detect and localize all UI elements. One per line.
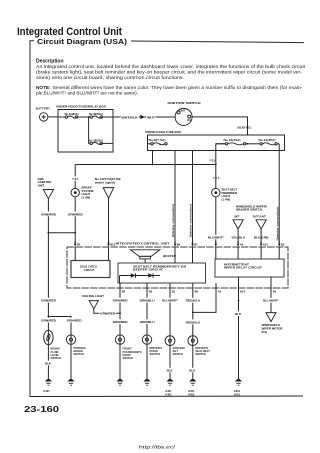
svg-text:No.8(7.5A): No.8(7.5A) bbox=[149, 138, 166, 142]
svg-text:G401: G401 bbox=[43, 389, 50, 393]
svg-text:SWITCH: SWITCH bbox=[123, 356, 134, 360]
driver door switch bbox=[142, 335, 162, 356]
wire column D front passenger door bbox=[119, 288, 121, 335]
bulb seat belt reminder light bbox=[212, 187, 238, 201]
bottom stub B2 bbox=[120, 283, 126, 294]
wire beeper stub bbox=[144, 259, 146, 263]
svg-text:(1.4W): (1.4W) bbox=[222, 198, 231, 202]
parking brake switch bbox=[66, 335, 85, 356]
wire BLK/YEL ignition to under-dash box bbox=[192, 117, 252, 135]
wire column J BLU/WHT1 bbox=[270, 288, 272, 313]
description heading bbox=[36, 59, 64, 65]
brake fluid level switch bbox=[44, 330, 61, 360]
connector windshield wiper motor bbox=[262, 313, 284, 334]
connector arrow on WHT wire bbox=[140, 114, 155, 120]
wire A4 stub bbox=[237, 247, 239, 259]
wire BLK seat belt to ground bbox=[189, 336, 197, 378]
svg-text:A6: A6 bbox=[273, 290, 277, 294]
label BLU/WHT1 bbox=[263, 298, 280, 303]
wire B13 stub into bulb check bbox=[108, 247, 110, 261]
svg-text:G401: G401 bbox=[165, 389, 172, 393]
fuse No.14(20A) bbox=[259, 138, 280, 145]
svg-text:SWITCH: SWITCH bbox=[51, 356, 62, 360]
bottom stub A3 bbox=[216, 283, 222, 294]
bulb check circuit box bbox=[71, 261, 110, 278]
ground front passenger door bbox=[116, 378, 123, 386]
wire INT to A4 bbox=[237, 229, 239, 244]
label RED/BLU G row1 bbox=[185, 298, 201, 303]
label YEL at rail tee bbox=[209, 159, 216, 163]
svg-text:Integrated Control Unit: Integrated Control Unit bbox=[17, 26, 122, 38]
svg-text:No.14(20A): No.14(20A) bbox=[259, 138, 276, 142]
pin B13 bbox=[107, 242, 115, 246]
bottom stub B3b bbox=[147, 283, 153, 294]
wire fuse16 drop (seat belt feed) bbox=[216, 144, 226, 165]
svg-text:(Interior connection): (Interior connection) bbox=[275, 207, 279, 240]
node BLK/YEL feed bbox=[247, 143, 249, 145]
svg-text:INT: INT bbox=[235, 215, 240, 219]
pin B9 bbox=[174, 242, 181, 246]
ground parking brake bbox=[67, 378, 74, 386]
svg-text:WASHER SWITCH: WASHER SWITCH bbox=[236, 208, 262, 212]
svg-text:B1: B1 bbox=[172, 290, 176, 294]
svg-text:CIRCUIT: CIRCUIT bbox=[84, 268, 95, 272]
svg-text:(meter signal): (meter signal) bbox=[95, 181, 115, 185]
label BLU/WHT2 bbox=[207, 235, 224, 240]
svg-text:B4: B4 bbox=[77, 242, 81, 246]
wire ABS drop bbox=[47, 199, 49, 233]
node under-hood branch bbox=[88, 116, 90, 118]
wire fuse41 to fuse39 with junction bbox=[78, 116, 90, 118]
svg-text:WHT: WHT bbox=[147, 116, 155, 120]
svg-text:GRN/RED: GRN/RED bbox=[68, 212, 83, 216]
wire column I BLK ground bbox=[235, 288, 243, 378]
svg-text:WHT/BLK: WHT/BLK bbox=[122, 116, 139, 120]
pin B3 bbox=[278, 242, 285, 246]
svg-text:GRN/RED: GRN/RED bbox=[41, 319, 56, 323]
connector OFF/INT bbox=[253, 215, 266, 229]
svg-text:A4: A4 bbox=[240, 242, 244, 246]
svg-text:SWITCH: SWITCH bbox=[74, 352, 85, 356]
node fuse8 to YEL rail bbox=[152, 164, 154, 166]
section frame border bbox=[30, 41, 304, 397]
pin seat belt light bbox=[215, 244, 218, 247]
svg-text:BLU/WHT²: BLU/WHT² bbox=[208, 236, 224, 240]
label YEL brake bulb bbox=[72, 176, 80, 181]
svg-text:BLK/YEL: BLK/YEL bbox=[238, 126, 252, 130]
svg-text:BLU/GRN: BLU/GRN bbox=[254, 236, 268, 240]
wire brake bulb to B4 bbox=[74, 197, 76, 244]
seat belt reminder/key-on beeper circuit box bbox=[118, 263, 206, 283]
wire column E driver door bbox=[146, 288, 148, 335]
svg-text:BLK: BLK bbox=[45, 361, 52, 365]
fuse No.38(50A) bbox=[89, 138, 113, 144]
svg-text:UNIT: UNIT bbox=[38, 183, 45, 187]
wire branch down to fuse38 bbox=[89, 117, 90, 143]
battery bbox=[36, 107, 50, 122]
wire WHT/BLK from box to connector arrow bbox=[113, 114, 175, 120]
pin A13 bbox=[260, 242, 268, 246]
label YEL/BLU bbox=[231, 236, 245, 240]
wire B7 stub bbox=[192, 247, 194, 263]
pin A4 bbox=[237, 242, 244, 246]
wire A13 stub bbox=[260, 247, 262, 259]
wire fuse14 drop interior connection 3 bbox=[275, 144, 279, 244]
watermark bbox=[139, 445, 176, 450]
wire parking brake to ground bbox=[70, 335, 72, 378]
svg-text:GRN/RED: GRN/RED bbox=[41, 299, 56, 303]
svg-text:BATTERY: BATTERY bbox=[36, 107, 50, 111]
junction dots at top pins bbox=[74, 241, 280, 243]
wire BLK ignition key to ground bbox=[166, 336, 174, 378]
svg-text:GRN/RED: GRN/RED bbox=[113, 299, 128, 303]
svg-text:GRN/BLU: GRN/BLU bbox=[140, 320, 155, 324]
ground ignition key bbox=[165, 378, 173, 397]
svg-text:UNDER-HOOD FUSE/RELAY BOX: UNDER-HOOD FUSE/RELAY BOX bbox=[56, 105, 106, 109]
description paragraph bbox=[36, 64, 306, 80]
svg-text:No.16(10A): No.16(10A) bbox=[224, 138, 241, 142]
ground driver door bbox=[143, 378, 150, 386]
svg-text:(1.4W): (1.4W) bbox=[82, 196, 91, 200]
pin B4 bbox=[74, 242, 81, 246]
label GRN/RED D row1 bbox=[112, 298, 128, 303]
wire interior connection 1 bbox=[171, 151, 175, 245]
svg-text:INTEGRATED CONTROL UNIT: INTEGRATED CONTROL UNIT bbox=[116, 241, 170, 245]
svg-text:OFF/INT: OFF/INT bbox=[253, 215, 266, 219]
wire fuse8 output drop bbox=[152, 151, 154, 165]
svg-text:B14: B14 bbox=[240, 290, 245, 294]
node A split bbox=[48, 316, 50, 318]
bulb brake system light bbox=[71, 185, 94, 199]
wire column F ignition key switch bbox=[169, 288, 171, 336]
section heading bbox=[37, 39, 127, 46]
label BLU/WHT2 F bbox=[162, 298, 179, 303]
svg-text:CEILING LIGHT: CEILING LIGHT bbox=[82, 294, 104, 298]
wire jog A3 to G bbox=[193, 288, 216, 312]
wire front passenger door to ground bbox=[119, 335, 121, 378]
label GRN/RED A row1 bbox=[40, 298, 56, 303]
seat belt reminder light feed bbox=[212, 175, 220, 180]
svg-text:B8: B8 bbox=[195, 290, 199, 294]
svg-text:B13: B13 bbox=[110, 242, 115, 246]
svg-text:BAT: BAT bbox=[181, 110, 186, 113]
wire jog A to parking brake bbox=[48, 317, 71, 335]
svg-text:RED/BLU: RED/BLU bbox=[186, 320, 201, 324]
pin B7 bbox=[191, 242, 198, 246]
label GRN/RED A row2 bbox=[40, 318, 56, 323]
fuse No.39(50A) bbox=[89, 112, 113, 118]
svg-text:B2: B2 bbox=[122, 290, 126, 294]
svg-text:BLU/WHT²: BLU/WHT² bbox=[162, 299, 178, 303]
svg-text:SWITCH: SWITCH bbox=[173, 352, 184, 356]
wire column G driver seat belt switch bbox=[192, 288, 194, 336]
svg-text:B3: B3 bbox=[149, 290, 153, 294]
front passenger door switch bbox=[115, 335, 142, 360]
wire meter signal to B13 bbox=[108, 198, 110, 244]
ignition switch bbox=[168, 101, 201, 126]
svg-text:NOTE:Several different wires h: NOTE:Several different wires have the sa… bbox=[36, 85, 303, 90]
under-hood fuse/relay box bbox=[56, 105, 113, 152]
bottom stub A6 bbox=[271, 277, 277, 294]
diode D1 bbox=[131, 273, 136, 277]
bottom stub B14 bbox=[239, 277, 246, 294]
ground G401 brake fluid bbox=[43, 378, 52, 393]
svg-text:Circuit Diagram (USA): Circuit Diagram (USA) bbox=[37, 39, 127, 46]
diode D2 bbox=[148, 273, 153, 277]
svg-text:BLK: BLK bbox=[167, 369, 174, 373]
connector INT bbox=[233, 215, 243, 229]
ground G201/G401 bbox=[234, 378, 242, 397]
wire seat light stub bbox=[215, 247, 217, 259]
label GRN/RED on bulb wire bbox=[67, 212, 83, 217]
windshield wiper/washer switch bbox=[236, 204, 267, 211]
brake system light feed wire bbox=[74, 165, 76, 189]
wire battery to under-hood box bbox=[48, 116, 58, 118]
wire seat bulb down bbox=[215, 165, 217, 245]
svg-text:G201: G201 bbox=[234, 389, 241, 393]
fuse No.16(10A) bbox=[216, 138, 260, 145]
beeper bbox=[131, 250, 177, 259]
node YEL rail tee bbox=[215, 164, 217, 166]
bottom stub B1 bbox=[170, 283, 176, 294]
svg-text:G401: G401 bbox=[234, 392, 241, 396]
ABS control unit connector bbox=[38, 177, 54, 199]
svg-text:SWITCH: SWITCH bbox=[150, 352, 161, 356]
svg-text:GRN/RED: GRN/RED bbox=[67, 319, 82, 323]
page title bbox=[17, 26, 122, 38]
svg-text:B7: B7 bbox=[194, 242, 198, 246]
fuse No.41(80A) bbox=[58, 112, 79, 118]
label GRN/RED D row2 bbox=[112, 319, 128, 324]
svg-text:B9: B9 bbox=[177, 242, 181, 246]
ceiling light connector bbox=[82, 294, 104, 309]
svg-text:RED/BLU: RED/BLU bbox=[186, 299, 201, 303]
svg-text:GRN/RED: GRN/RED bbox=[100, 312, 115, 316]
svg-text:YEL: YEL bbox=[72, 177, 79, 181]
svg-text:(Interior connection): (Interior connection) bbox=[171, 204, 175, 237]
svg-text:BLK: BLK bbox=[189, 369, 196, 373]
diode row wire bbox=[120, 276, 161, 284]
svg-text:YEL/BLU: YEL/BLU bbox=[231, 236, 245, 240]
svg-text:23-160: 23-160 bbox=[24, 404, 59, 414]
wire B3 stub bbox=[278, 247, 280, 259]
svg-text:YEL: YEL bbox=[209, 159, 216, 163]
svg-text:(brake system light), seat bel: (brake system light), seat belt reminder… bbox=[36, 70, 302, 75]
svg-text:(P4): (P4) bbox=[262, 330, 267, 334]
wire BLK below brake fluid switch bbox=[45, 330, 53, 377]
ignition key switch bbox=[165, 336, 185, 357]
svg-text:IG1: IG1 bbox=[187, 119, 192, 122]
svg-text:sions) onto one circuit board,: sions) onto one circuit board, sharing c… bbox=[36, 75, 184, 80]
wire interior connection 2 bbox=[189, 151, 193, 245]
svg-text:GRN/RED: GRN/RED bbox=[41, 212, 56, 216]
label BLU/GRN bbox=[254, 236, 268, 240]
note paragraph bbox=[36, 85, 303, 96]
svg-text:GRN/RED: GRN/RED bbox=[113, 320, 128, 324]
svg-text:G402: G402 bbox=[165, 392, 172, 396]
svg-text:GRN/BLU: GRN/BLU bbox=[140, 299, 155, 303]
svg-text:SWITCH: SWITCH bbox=[195, 352, 206, 356]
svg-text:G402: G402 bbox=[188, 392, 195, 396]
svg-text:An integrated control unit, lo: An integrated control unit, located behi… bbox=[36, 64, 306, 69]
fuse No.8(7.5A) bbox=[148, 138, 168, 145]
svg-text:BLU/WHT¹: BLU/WHT¹ bbox=[263, 299, 279, 303]
wire GRN/RED column A lower bbox=[47, 233, 49, 331]
svg-text:B3: B3 bbox=[281, 242, 285, 246]
label RED/BLU G row2 bbox=[185, 320, 201, 325]
wire OFF/INT to A13 bbox=[260, 229, 262, 244]
wire ceiling light jog bbox=[94, 309, 120, 313]
driver seat belt switch bbox=[188, 336, 210, 357]
under-dash fuse box bbox=[145, 130, 285, 151]
svg-text:BEEPER CIRCUIT: BEEPER CIRCUIT bbox=[133, 268, 164, 272]
label GRN/BLU E row2 bbox=[139, 319, 155, 324]
wire jog ABS to bulb wire bbox=[48, 232, 77, 234]
svg-text:UNDER-DASH FUSE BOX: UNDER-DASH FUSE BOX bbox=[145, 130, 181, 134]
svg-text:(Interior connection): (Interior connection) bbox=[189, 204, 193, 237]
svg-text:WIPER RELAY CIRCUIT: WIPER RELAY CIRCUIT bbox=[224, 266, 263, 270]
svg-text:http://tbs.ec/: http://tbs.ec/ bbox=[139, 445, 176, 450]
wire B4 stub into bulb check bbox=[74, 247, 76, 261]
integrated control unit box bbox=[67, 241, 288, 288]
svg-text:A13: A13 bbox=[263, 242, 268, 246]
label GRN/BLU E row1 bbox=[139, 298, 155, 303]
wire driver door to ground bbox=[146, 335, 148, 378]
label GRN/RED on ceiling jog bbox=[99, 311, 115, 316]
ground driver seat belt bbox=[188, 378, 196, 397]
bottom stub B8 bbox=[193, 283, 199, 294]
page number bbox=[24, 404, 59, 414]
svg-text:G401: G401 bbox=[188, 389, 195, 393]
label GRN/RED B column bbox=[66, 318, 82, 323]
fuse No.15 meter signal connector bbox=[95, 177, 121, 198]
svg-text:ple BLU/WHT¹ and BLU/WHT² are: ple BLU/WHT¹ and BLU/WHT² are not the sa… bbox=[36, 91, 138, 96]
svg-text:BLK: BLK bbox=[235, 312, 242, 316]
wire B9 stub bbox=[174, 247, 176, 263]
label GRN/RED on ABS wire bbox=[40, 212, 56, 217]
intermittent wiper relay circuit box bbox=[215, 259, 284, 277]
wire YEL rail bbox=[75, 164, 216, 166]
svg-text:IGNITION SWITCH: IGNITION SWITCH bbox=[168, 101, 201, 105]
svg-text:A3: A3 bbox=[218, 290, 222, 294]
